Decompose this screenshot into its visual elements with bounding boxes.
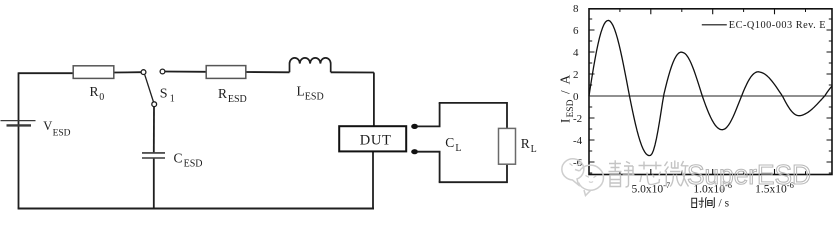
svg-text:1: 1 <box>170 93 175 104</box>
battery V_ESD <box>1 119 71 139</box>
svg-text:L: L <box>531 144 537 155</box>
wire left rail <box>18 72 20 208</box>
svg-text:R: R <box>521 136 530 151</box>
wire top stub to load loop <box>418 103 440 127</box>
resistor R_L <box>499 128 537 164</box>
svg-text:/: / <box>558 90 573 94</box>
chart x-axis ticks top <box>651 9 775 15</box>
svg-text:EC-Q100-003 Rev. E: EC-Q100-003 Rev. E <box>729 20 826 31</box>
svg-text:5.0x10-7: 5.0x10-7 <box>631 180 670 196</box>
svg-text:SuperESD: SuperESD <box>687 159 811 190</box>
chart zero line <box>589 95 832 97</box>
chart x-axis ticks bottom <box>651 169 775 175</box>
svg-text:-4: -4 <box>573 135 583 147</box>
chart y-axis minor ticks left <box>589 19 592 173</box>
svg-text:R: R <box>90 84 99 99</box>
svg-text:C: C <box>174 151 183 166</box>
svg-text:L: L <box>297 83 305 98</box>
svg-text:ESD: ESD <box>53 129 71 139</box>
芯 <box>639 162 662 185</box>
inductor L_ESD <box>290 58 331 103</box>
chart y axis title I_ESD / A (rotated) <box>558 75 577 124</box>
wire top rail <box>19 72 374 74</box>
wire C_ESD to bottom rail <box>153 159 155 209</box>
svg-text:0: 0 <box>99 92 104 103</box>
wire load loop top rail <box>439 103 507 128</box>
svg-text:ESD: ESD <box>228 94 247 105</box>
DUT box U1 <box>339 126 406 151</box>
chart x tick labels <box>631 180 793 196</box>
静 <box>609 160 622 186</box>
wire bottom rail <box>18 208 374 210</box>
wire bottom stub to load loop <box>418 152 440 183</box>
chart frame <box>589 9 832 175</box>
svg-text:ESD: ESD <box>305 92 324 103</box>
svg-text:R: R <box>218 86 227 101</box>
chart x axis title: 时间 / s <box>692 197 715 208</box>
resistor R_ESD <box>206 66 247 105</box>
svg-text:L: L <box>455 143 461 154</box>
svg-text:C: C <box>445 135 454 150</box>
wire DUT vertical lower <box>372 151 374 208</box>
legend line <box>702 24 727 26</box>
chart y-axis major ticks left <box>589 30 595 162</box>
svg-text:/ s: / s <box>719 198 730 210</box>
svg-text:8: 8 <box>573 3 579 15</box>
capacitor C_ESD <box>142 151 203 170</box>
wire DUT vertical upper <box>373 73 375 127</box>
switch S1 <box>141 69 175 107</box>
svg-text:A: A <box>558 75 573 85</box>
node top terminal dot <box>411 124 418 129</box>
node bottom terminal dot <box>411 149 418 154</box>
微 <box>665 161 689 187</box>
svg-text:ESD: ESD <box>566 99 576 117</box>
svg-text:ESD: ESD <box>184 159 203 170</box>
chart waveform curve <box>589 20 832 155</box>
watermark text 静芯微SuperESD <box>609 160 689 187</box>
svg-text:2: 2 <box>573 69 579 81</box>
watermark logo <box>562 159 604 196</box>
svg-text:S: S <box>160 86 168 101</box>
chart y-axis ticks right <box>827 30 833 162</box>
svg-text:V: V <box>43 119 52 133</box>
chart y tick labels <box>573 3 583 169</box>
svg-text:6: 6 <box>573 25 579 37</box>
wire switch to C_ESD <box>153 107 155 153</box>
svg-text:4: 4 <box>573 47 579 59</box>
svg-text:DUT: DUT <box>360 132 392 148</box>
resistor R0 <box>73 66 114 103</box>
svg-text:I: I <box>558 119 573 123</box>
wire load loop bottom rail <box>439 164 507 182</box>
